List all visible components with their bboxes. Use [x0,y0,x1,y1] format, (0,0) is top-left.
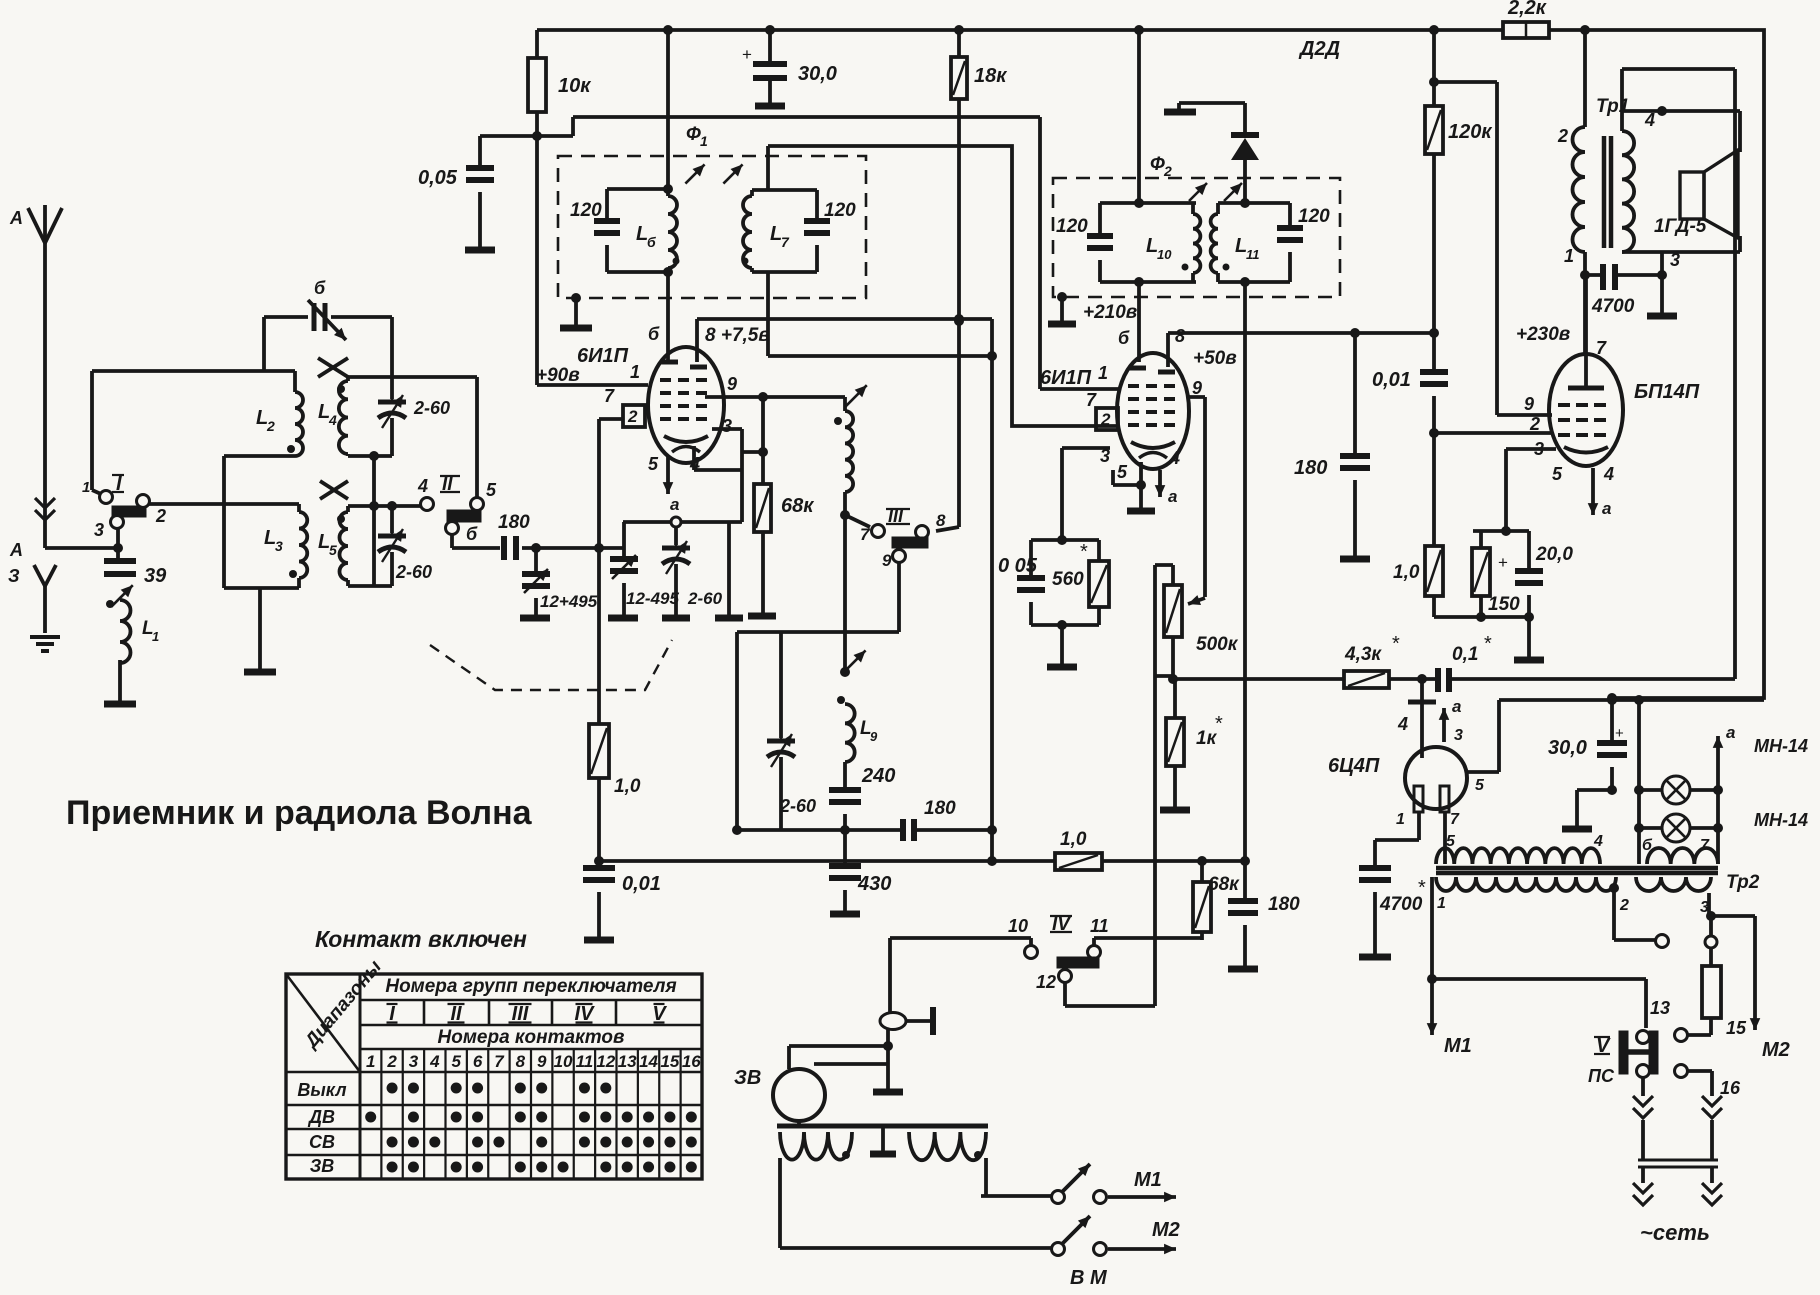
svg-text:А: А [9,208,23,228]
svg-text:180: 180 [1294,457,1327,479]
svg-text:9: 9 [727,374,737,394]
svg-text:3: 3 [1454,727,1463,744]
svg-text:а: а [1452,697,1461,716]
svg-text:9: 9 [1524,394,1534,414]
svg-text:4,3к: 4,3к [1344,644,1382,665]
svg-text:МН-14: МН-14 [1754,810,1808,830]
svg-text:2: 2 [155,506,166,526]
svg-text:1: 1 [630,362,640,382]
svg-text:2-60: 2-60 [395,562,432,582]
svg-text:2: 2 [266,418,275,434]
svg-text:6: 6 [473,1052,483,1071]
svg-text:ПС: ПС [1588,1066,1615,1086]
svg-text:11: 11 [1090,916,1109,936]
svg-text:а: а [670,495,679,514]
svg-text:МН-14: МН-14 [1754,736,1808,756]
svg-text:5: 5 [329,542,337,558]
svg-text:11: 11 [1246,247,1260,262]
svg-text:16: 16 [1720,1078,1741,1098]
svg-text:30,0: 30,0 [798,63,837,85]
svg-text:2-60: 2-60 [687,589,723,608]
svg-text:30,0: 30,0 [1548,737,1587,759]
svg-text:5: 5 [451,1052,461,1071]
svg-text:18к: 18к [974,65,1007,87]
svg-text:4: 4 [1603,464,1614,484]
svg-text:6И1П: 6И1П [577,345,629,367]
svg-text:6Ц4П: 6Ц4П [1328,755,1380,777]
svg-text:5: 5 [1475,777,1485,794]
svg-text:0,1: 0,1 [1452,644,1478,665]
svg-text:2: 2 [1557,126,1568,146]
svg-text:12: 12 [596,1052,615,1071]
svg-text:1: 1 [1098,363,1108,383]
svg-text:0,05: 0,05 [418,167,458,189]
svg-text:240: 240 [861,765,895,787]
svg-text:2: 2 [627,407,638,426]
svg-text:СВ: СВ [309,1132,335,1152]
svg-text:14: 14 [639,1052,658,1071]
svg-text:12+495: 12+495 [540,592,598,611]
svg-text:120: 120 [570,200,602,221]
svg-text:З: З [8,566,20,586]
svg-text:150: 150 [1488,594,1520,615]
svg-text:1: 1 [1564,246,1574,266]
svg-text:1: 1 [1437,895,1446,912]
svg-text:А: А [9,540,23,560]
svg-text:Номера групп переключателя: Номера групп переключателя [385,976,676,997]
svg-text:0 05: 0 05 [998,555,1038,577]
svg-text:2: 2 [1100,410,1111,429]
svg-text:*: * [1392,633,1400,655]
svg-text:ДВ: ДВ [307,1107,335,1127]
svg-text:а: а [1168,487,1177,506]
svg-text:ЗВ: ЗВ [734,1067,761,1089]
svg-text:4700: 4700 [1591,296,1635,317]
svg-text:180: 180 [498,512,530,533]
svg-text:Тр1: Тр1 [1596,96,1629,117]
svg-text:а: а [1602,499,1611,518]
svg-text:8: 8 [516,1052,526,1071]
svg-text:М2: М2 [1762,1039,1790,1061]
svg-text:Д2Д: Д2Д [1298,38,1340,60]
svg-text:11: 11 [576,1052,594,1071]
svg-text:3: 3 [1100,446,1110,466]
svg-text:4: 4 [1397,714,1408,734]
svg-text:3: 3 [1670,250,1680,270]
svg-text:Контакт включен: Контакт включен [315,926,527,952]
svg-text:*: * [1484,633,1492,655]
svg-text:120к: 120к [1448,121,1492,143]
svg-text:2: 2 [1529,414,1540,434]
svg-text:+230в: +230в [1516,324,1570,345]
svg-text:Ф: Ф [686,124,701,145]
svg-text:7: 7 [781,234,790,250]
svg-text:9: 9 [882,551,892,570]
svg-text:Номера контактов: Номера контактов [438,1027,625,1048]
svg-text:3: 3 [409,1052,419,1071]
svg-text:1,0: 1,0 [614,776,641,797]
svg-text:13: 13 [1650,998,1670,1018]
svg-text:120: 120 [1298,206,1330,227]
svg-text:10к: 10к [558,75,591,97]
svg-text:20,0: 20,0 [1535,544,1573,565]
svg-text:7: 7 [1596,338,1607,358]
svg-text:4: 4 [1644,110,1655,130]
svg-text:15: 15 [660,1052,679,1071]
svg-text:1: 1 [82,479,90,496]
svg-text:7: 7 [604,386,615,406]
svg-text:68к: 68к [781,495,814,517]
svg-text:БП14П: БП14П [1634,381,1700,403]
svg-text:*: * [1418,877,1426,899]
svg-text:2: 2 [386,1052,397,1071]
svg-text:7: 7 [1450,811,1460,828]
svg-text:1: 1 [366,1052,375,1071]
svg-text:Тр2: Тр2 [1726,872,1760,893]
svg-text:68к: 68к [1208,874,1240,895]
svg-text:15: 15 [1726,1018,1747,1038]
svg-text:2: 2 [1619,897,1629,914]
svg-text:12-495: 12-495 [626,589,679,608]
svg-text:~сеть: ~сеть [1640,1220,1710,1245]
svg-text:5: 5 [486,480,497,500]
svg-text:5: 5 [648,454,659,474]
svg-text:2-60: 2-60 [413,398,450,418]
svg-text:9: 9 [870,729,878,744]
svg-text:13: 13 [618,1052,637,1071]
svg-text:0,01: 0,01 [622,873,661,895]
svg-text:+: + [1615,725,1624,742]
svg-text:16: 16 [682,1052,701,1071]
svg-text:9: 9 [537,1052,547,1071]
svg-text:1: 1 [152,629,159,644]
svg-text:б: б [1118,328,1130,348]
svg-text:1: 1 [1396,811,1405,828]
svg-text:12: 12 [1036,972,1056,992]
svg-text:560: 560 [1052,569,1084,590]
svg-text:2,2к: 2,2к [1507,0,1547,19]
svg-text:5: 5 [1552,464,1563,484]
svg-text:б: б [647,234,656,250]
svg-text:1: 1 [700,133,708,149]
svg-text:6И1П: 6И1П [1040,367,1092,389]
svg-text:430: 430 [857,873,891,895]
svg-text:39: 39 [144,565,167,587]
svg-text:180: 180 [1268,894,1300,915]
svg-text:10: 10 [1157,247,1172,262]
svg-text:+90в: +90в [536,365,580,386]
svg-text:4700: 4700 [1379,894,1423,915]
svg-text:М1: М1 [1444,1035,1472,1057]
svg-text:8: 8 [936,511,946,530]
svg-text:а: а [1726,723,1735,742]
svg-text:б: б [648,324,660,344]
svg-text:ЗВ: ЗВ [310,1156,335,1176]
svg-text:М2: М2 [1152,1219,1180,1241]
svg-text:7: 7 [494,1052,505,1071]
svg-text:4: 4 [1593,833,1603,850]
svg-text:Ф: Ф [1150,154,1165,175]
svg-text:*: * [1080,541,1088,563]
svg-text:4: 4 [328,412,337,428]
svg-text:б: б [314,278,326,298]
svg-text:3: 3 [94,520,104,540]
svg-text:Приемник и радиола Волна: Приемник и радиола Волна [66,794,533,832]
svg-text:8: 8 [1175,326,1185,346]
svg-text:120: 120 [824,200,856,221]
svg-text:120: 120 [1056,216,1088,237]
svg-text:3: 3 [1534,439,1544,459]
svg-text:0,01: 0,01 [1372,369,1411,391]
svg-text:*: * [1215,713,1223,735]
svg-text:2-60: 2-60 [779,796,816,816]
svg-text:+: + [1498,553,1508,572]
svg-text:4: 4 [429,1052,440,1071]
svg-text:180: 180 [924,798,956,819]
svg-text:4: 4 [417,476,428,496]
svg-text:5: 5 [1446,833,1456,850]
svg-text:2: 2 [1163,163,1172,179]
svg-text:8 +7,5в: 8 +7,5в [705,325,770,346]
svg-text:7: 7 [860,525,871,544]
svg-text:500к: 500к [1196,634,1239,655]
svg-text:1,0: 1,0 [1393,562,1420,583]
svg-text:В М: В М [1070,1267,1108,1289]
svg-text:М1: М1 [1134,1169,1162,1191]
svg-text:7: 7 [1700,837,1710,854]
svg-text:10: 10 [1008,916,1028,936]
svg-text:+: + [742,45,752,64]
svg-text:3: 3 [275,538,283,554]
svg-text:1ГД-5: 1ГД-5 [1654,216,1707,237]
svg-text:Выкл: Выкл [297,1080,346,1100]
svg-text:б: б [1642,837,1653,854]
svg-text:1,0: 1,0 [1060,829,1087,850]
svg-text:10: 10 [554,1052,573,1071]
svg-text:+210в: +210в [1083,302,1137,323]
svg-text:9: 9 [1192,378,1202,398]
svg-text:б: б [466,524,478,544]
svg-text:5: 5 [1117,462,1128,482]
svg-text:+50в: +50в [1193,348,1237,369]
